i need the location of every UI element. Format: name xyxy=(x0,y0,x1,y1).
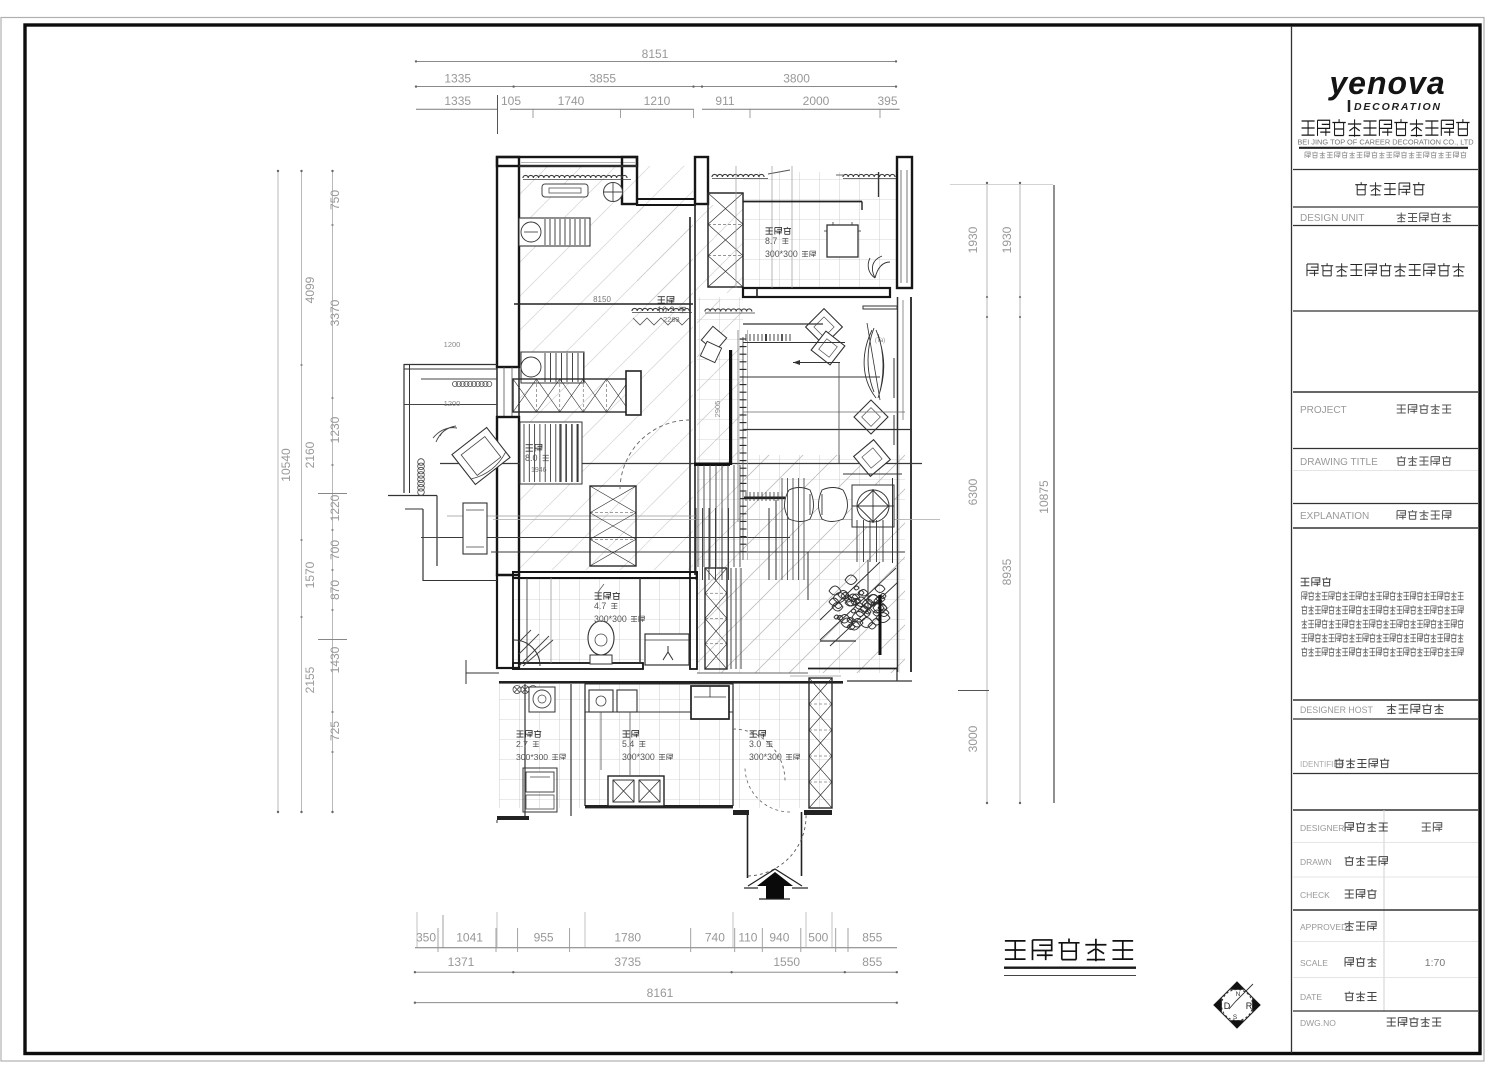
svg-text:1946: 1946 xyxy=(531,467,547,474)
svg-text:1220: 1220 xyxy=(328,494,342,521)
svg-text:4099: 4099 xyxy=(303,276,317,303)
svg-text:D: D xyxy=(1224,1001,1231,1011)
svg-text:1430: 1430 xyxy=(328,646,342,673)
svg-text:1570: 1570 xyxy=(303,561,317,588)
svg-text:CHECK: CHECK xyxy=(1300,890,1330,900)
svg-text:yenova: yenova xyxy=(1327,65,1445,101)
svg-text:110: 110 xyxy=(738,931,757,945)
svg-text:300*300: 300*300 xyxy=(749,752,782,762)
svg-text:DESIGNER HOST: DESIGNER HOST xyxy=(1300,705,1373,715)
svg-text:3855: 3855 xyxy=(589,72,616,86)
svg-text:105: 105 xyxy=(501,94,521,108)
svg-text:3800: 3800 xyxy=(783,72,810,86)
svg-text:700: 700 xyxy=(328,540,342,560)
svg-text:4.7: 4.7 xyxy=(594,601,606,611)
svg-text:DECORATION: DECORATION xyxy=(1354,101,1442,113)
svg-text:6300: 6300 xyxy=(966,478,980,505)
svg-text:N: N xyxy=(1236,991,1241,998)
svg-text:1:70: 1:70 xyxy=(1425,957,1446,969)
svg-text:3000: 3000 xyxy=(966,725,980,752)
svg-text:3735: 3735 xyxy=(614,955,641,969)
svg-text:300*300: 300*300 xyxy=(594,614,627,624)
svg-text:8151: 8151 xyxy=(642,47,669,61)
svg-text:EXPLANATION: EXPLANATION xyxy=(1300,511,1369,522)
svg-text:1230: 1230 xyxy=(328,416,342,443)
svg-text:3.0: 3.0 xyxy=(749,739,761,749)
svg-text:870: 870 xyxy=(328,580,342,600)
svg-text:955: 955 xyxy=(534,931,554,945)
svg-text:APPROVED: APPROVED xyxy=(1300,922,1347,932)
svg-text:BEI JING TOP OF CAREER DECORAT: BEI JING TOP OF CAREER DECORATION CO., L… xyxy=(1297,138,1473,147)
svg-text:10875: 10875 xyxy=(1037,480,1051,514)
svg-text:2.7: 2.7 xyxy=(516,739,528,749)
svg-text:500: 500 xyxy=(808,931,828,945)
svg-text:2155: 2155 xyxy=(303,666,317,693)
svg-text:8150: 8150 xyxy=(593,295,611,304)
svg-text:DESIGNER: DESIGNER xyxy=(1300,823,1344,833)
svg-text:8935: 8935 xyxy=(1000,558,1014,585)
svg-text:1335: 1335 xyxy=(444,72,471,86)
svg-text:1335: 1335 xyxy=(444,94,471,108)
svg-text:1200: 1200 xyxy=(444,399,461,408)
svg-text:300*300: 300*300 xyxy=(622,752,655,762)
svg-text:1210: 1210 xyxy=(644,94,671,108)
svg-text:5.4: 5.4 xyxy=(622,739,634,749)
svg-text:2905: 2905 xyxy=(713,401,722,418)
svg-text:DRAWING TITLE: DRAWING TITLE xyxy=(1300,457,1378,468)
svg-text:1371: 1371 xyxy=(448,955,475,969)
svg-text:940: 940 xyxy=(769,931,789,945)
svg-text:DRAWN: DRAWN xyxy=(1300,857,1332,867)
svg-text:725: 725 xyxy=(328,721,342,741)
svg-text:855: 855 xyxy=(862,931,882,945)
svg-text:R: R xyxy=(1246,1001,1253,1011)
svg-text:8.7: 8.7 xyxy=(765,236,777,246)
svg-text:911: 911 xyxy=(715,94,734,108)
svg-text:1930: 1930 xyxy=(1000,226,1014,253)
svg-text:1200: 1200 xyxy=(444,340,461,349)
svg-text:395: 395 xyxy=(877,94,897,108)
svg-text:10.2: 10.2 xyxy=(657,305,675,315)
svg-text:855: 855 xyxy=(862,955,882,969)
svg-text:1780: 1780 xyxy=(614,931,641,945)
svg-text:300*300: 300*300 xyxy=(516,752,548,762)
svg-text:1740: 1740 xyxy=(558,94,585,108)
svg-text:8.0: 8.0 xyxy=(525,453,538,463)
svg-text:DESIGN UNIT: DESIGN UNIT xyxy=(1300,213,1364,224)
svg-text:DATE: DATE xyxy=(1300,992,1322,1002)
svg-text:8161: 8161 xyxy=(647,986,674,1000)
svg-text:740: 740 xyxy=(705,931,725,945)
svg-text:750: 750 xyxy=(328,190,342,210)
svg-text:2000: 2000 xyxy=(803,94,830,108)
svg-text:1041: 1041 xyxy=(456,931,483,945)
svg-text:10540: 10540 xyxy=(279,448,293,482)
svg-text:3370: 3370 xyxy=(328,299,342,326)
svg-text:300*300: 300*300 xyxy=(765,249,798,259)
svg-text:DWG.NO: DWG.NO xyxy=(1300,1018,1336,1028)
svg-text:SCALE: SCALE xyxy=(1300,958,1328,968)
svg-text:2263: 2263 xyxy=(663,315,680,324)
svg-text:2160: 2160 xyxy=(303,441,317,468)
svg-text:1550: 1550 xyxy=(773,955,800,969)
svg-text:PROJECT: PROJECT xyxy=(1300,405,1347,416)
svg-text:350: 350 xyxy=(416,931,436,945)
svg-text:S: S xyxy=(1233,1014,1238,1021)
svg-text:1930: 1930 xyxy=(966,226,980,253)
